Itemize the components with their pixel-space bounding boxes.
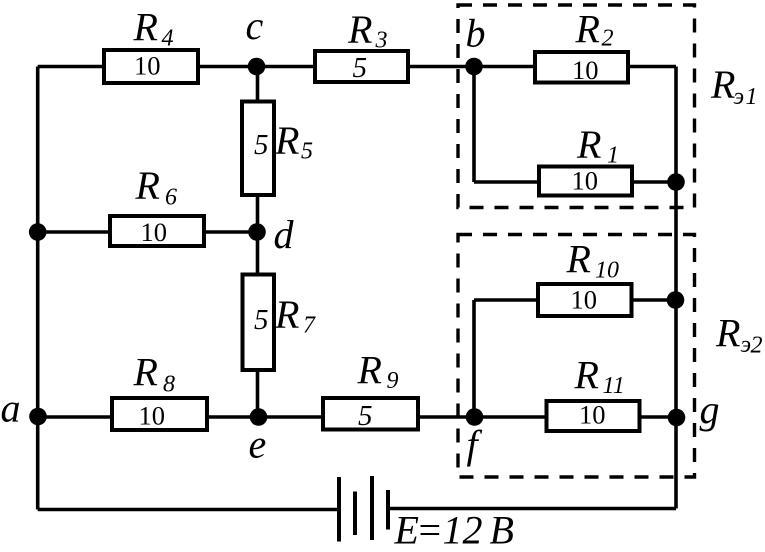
resistor R1	[539, 166, 632, 196]
label R10	[566, 237, 620, 284]
svg-text:7: 7	[303, 313, 316, 339]
label R11	[574, 353, 625, 400]
label R_e1	[710, 62, 758, 110]
wire node f to R11	[474, 415, 546, 419]
svg-text:R: R	[566, 237, 591, 282]
svg-text:10: 10	[141, 217, 168, 247]
wire right column down to R1 node	[674, 67, 678, 183]
node label f	[467, 422, 483, 467]
dashed box R_e1	[458, 5, 695, 208]
wire R11 to node g	[640, 415, 677, 419]
wire node b down	[472, 67, 476, 183]
label E = 12 V	[394, 508, 514, 552]
svg-text:5: 5	[254, 129, 269, 161]
node R1-right	[667, 173, 685, 191]
svg-text:4: 4	[162, 26, 174, 52]
wire R7 to node e	[256, 370, 260, 417]
svg-text:10: 10	[572, 166, 599, 196]
wire R1 right to node	[632, 180, 676, 184]
svg-text:6: 6	[165, 185, 177, 211]
node e	[250, 408, 268, 426]
svg-text:=: =	[416, 508, 443, 552]
label R2	[575, 7, 614, 52]
resistor R5	[242, 102, 274, 196]
label R4	[133, 5, 174, 52]
svg-text:5: 5	[301, 139, 313, 165]
svg-text:8: 8	[163, 372, 175, 398]
svg-text:5: 5	[353, 52, 368, 84]
node label c	[246, 3, 264, 48]
svg-text:R: R	[575, 7, 600, 52]
wire node c to R3	[258, 65, 316, 69]
svg-text:10: 10	[579, 400, 606, 430]
node label a	[1, 386, 21, 431]
label R9	[357, 348, 399, 395]
svg-text:12: 12	[443, 508, 483, 552]
label R5	[274, 118, 313, 165]
svg-text:R: R	[357, 348, 382, 393]
svg-text:10: 10	[595, 258, 619, 284]
wire node f up	[472, 300, 476, 417]
node R10-right	[667, 291, 685, 309]
wire R2 right to top-right corner	[628, 65, 676, 69]
svg-text:3: 3	[375, 28, 388, 54]
wire b-column to R1 left	[474, 180, 539, 184]
svg-text:g: g	[700, 387, 720, 432]
node label e	[249, 422, 267, 467]
label R8	[133, 350, 176, 398]
wire R1 node down to R10 node	[674, 182, 678, 300]
node b	[465, 58, 483, 76]
label R7	[274, 292, 316, 339]
resistor R2	[535, 52, 628, 85]
wire bottom right to battery	[388, 507, 676, 511]
svg-text:R: R	[576, 122, 601, 167]
svg-text:R: R	[710, 62, 735, 107]
wire R5 to node d	[256, 195, 260, 232]
wire R6 to node d	[204, 230, 258, 234]
svg-text:В: В	[490, 508, 514, 552]
svg-text:R: R	[133, 350, 158, 395]
wire node a to R8	[38, 415, 112, 419]
svg-text:a: a	[1, 386, 21, 431]
resistor R4	[104, 50, 198, 83]
svg-text:d: d	[274, 212, 295, 257]
svg-text:1: 1	[607, 143, 619, 169]
node g	[668, 409, 686, 427]
resistor R6	[110, 216, 204, 247]
resistor R11	[547, 400, 640, 432]
svg-text:R: R	[715, 311, 740, 356]
label R1	[576, 122, 619, 169]
wire R3 to node b	[408, 65, 474, 69]
svg-text:1: 1	[746, 84, 758, 110]
svg-text:R: R	[347, 7, 372, 52]
wire R9 to node f	[418, 415, 474, 419]
battery E	[339, 476, 388, 542]
svg-text:R: R	[574, 353, 599, 398]
svg-text:R: R	[274, 292, 299, 337]
wire node g down to bottom rail	[674, 417, 678, 509]
svg-text:R: R	[133, 5, 158, 50]
wire R10 right to node	[632, 298, 677, 302]
wire top-left to R4	[38, 65, 104, 69]
resistor R9	[323, 398, 418, 432]
svg-text:10: 10	[572, 55, 599, 85]
wire f-column to R10 left	[474, 298, 537, 302]
wire R10 node down to node g	[674, 300, 678, 417]
resistor R10	[538, 284, 632, 316]
wire node d down to R7	[256, 232, 260, 275]
label R6	[135, 163, 178, 211]
svg-text:10: 10	[139, 401, 166, 431]
wire R4 to node c	[198, 65, 258, 69]
svg-text:9: 9	[387, 368, 399, 394]
node a	[29, 408, 47, 426]
node f	[466, 408, 484, 426]
svg-text:5: 5	[254, 304, 269, 336]
svg-text:c: c	[246, 3, 264, 48]
svg-text:э: э	[734, 84, 745, 110]
resistor R3	[315, 51, 408, 84]
dashed box R_e2	[458, 235, 695, 478]
svg-text:10: 10	[134, 51, 161, 81]
wire left node to R6	[38, 230, 110, 234]
resistor R7	[243, 275, 275, 371]
node junction left-mid	[29, 223, 47, 241]
node c	[248, 58, 266, 76]
svg-text:b: b	[466, 11, 486, 56]
svg-text:5: 5	[358, 400, 373, 432]
wire node b to R2	[474, 65, 535, 69]
wire left rail	[36, 67, 40, 510]
node d	[248, 223, 266, 241]
svg-text:11: 11	[603, 373, 625, 399]
node label d	[274, 212, 295, 257]
svg-text:э: э	[741, 332, 752, 358]
node label b	[466, 11, 486, 56]
label R_e2	[715, 311, 763, 359]
svg-text:e: e	[249, 422, 267, 467]
wire node e to R9	[259, 415, 324, 419]
wire battery to bottom left	[38, 508, 339, 512]
wire node c down to R5	[256, 67, 260, 103]
label R3	[347, 7, 388, 54]
svg-text:2: 2	[602, 26, 614, 52]
svg-text:2: 2	[751, 333, 763, 359]
svg-text:10: 10	[571, 285, 598, 315]
svg-text:R: R	[135, 163, 160, 208]
node label g	[700, 387, 720, 432]
wire R8 to node e	[207, 415, 259, 419]
svg-text:R: R	[274, 118, 299, 163]
resistor R8	[112, 398, 207, 431]
